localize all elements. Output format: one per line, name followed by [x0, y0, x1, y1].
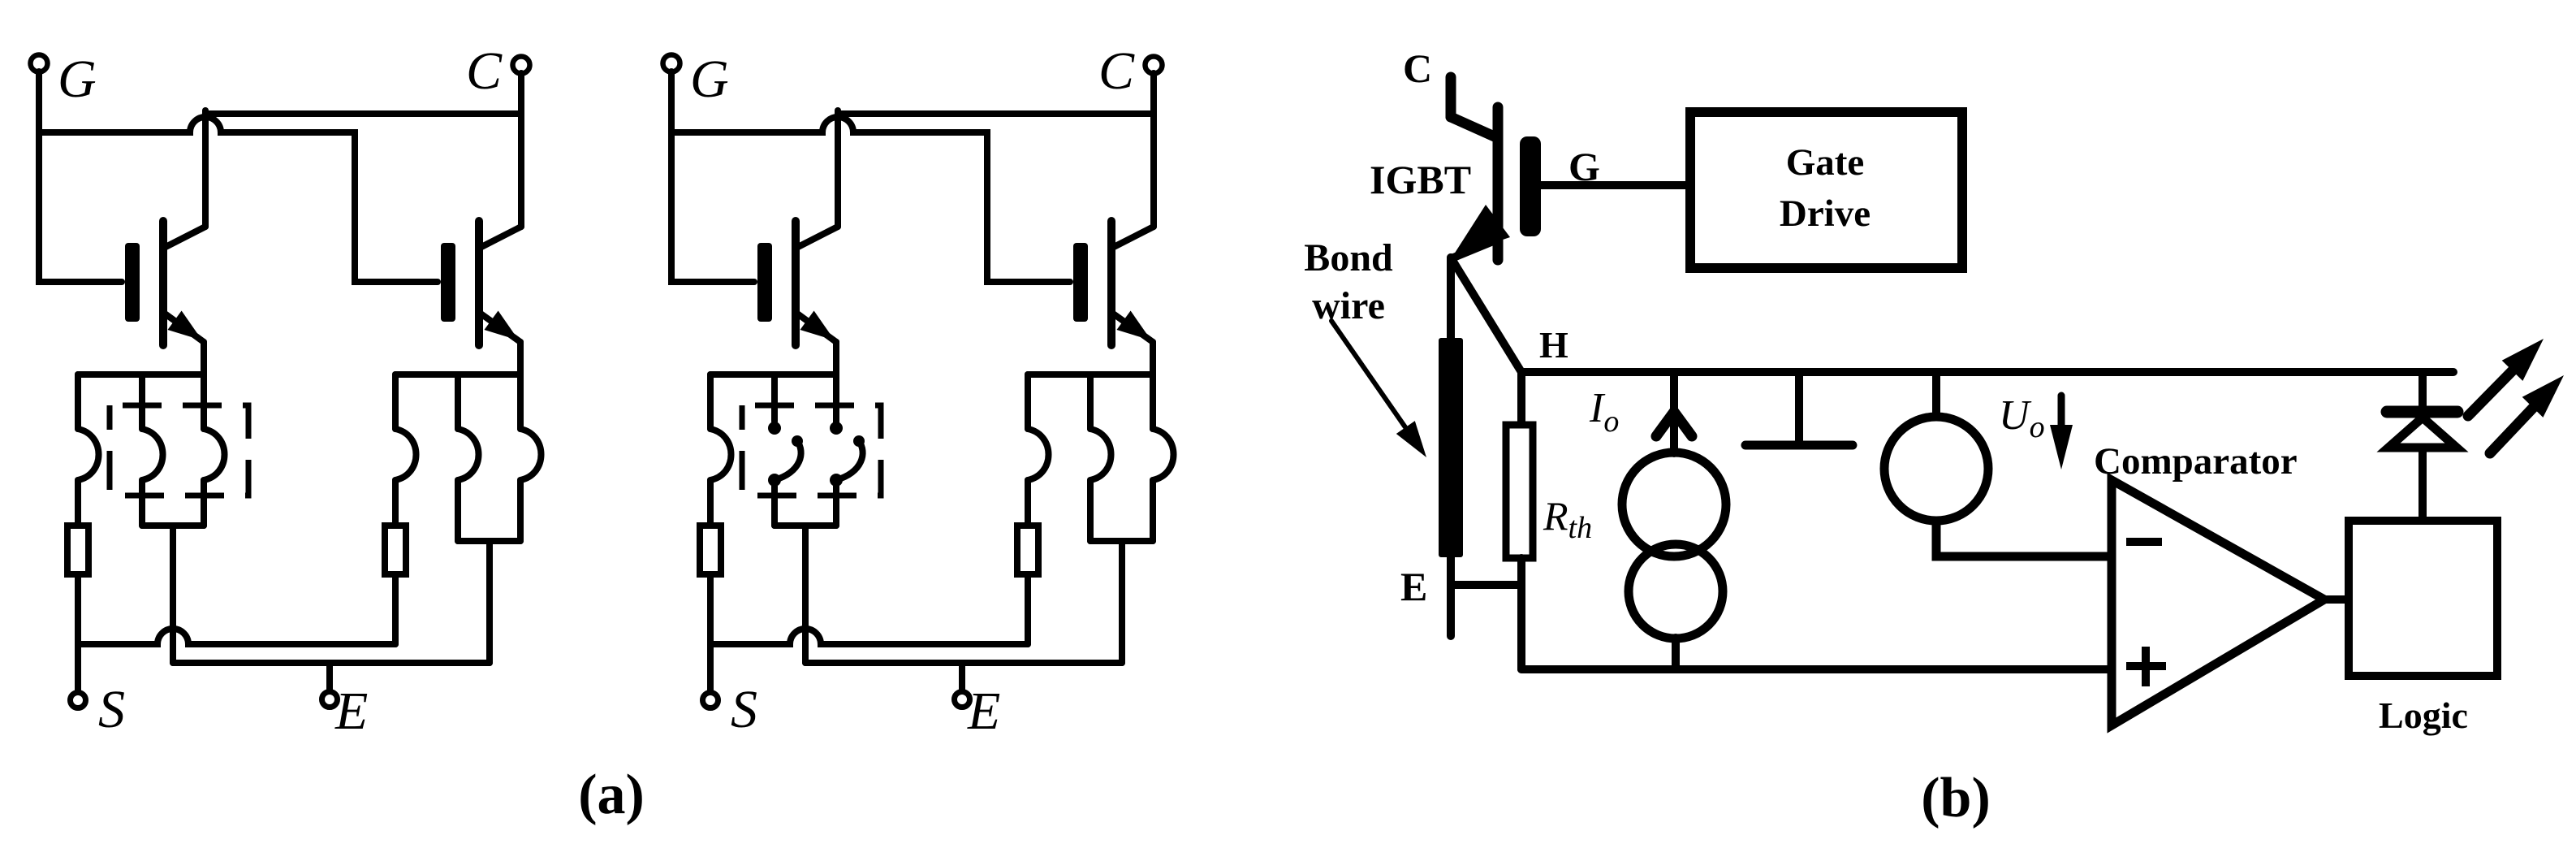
- svg-text:C: C: [466, 41, 503, 101]
- wire E terminal tap: [959, 663, 965, 690]
- wire S rail with hop: [78, 629, 395, 644]
- wire emitter diagonal to node H: [1451, 258, 1521, 372]
- svg-text:Comparator: Comparator: [2094, 440, 2298, 483]
- transistor IGBT chip 2 gate bar: [441, 243, 455, 322]
- inductor bond wire L2a: [1028, 429, 1049, 480]
- wire stub group 1 to bottom rail: [802, 526, 809, 663]
- wire U-join group 2: [1090, 538, 1153, 544]
- svg-text:Rth: Rth: [1543, 493, 1592, 545]
- inductor bond wire L2c: [1153, 429, 1174, 480]
- svg-text:E: E: [334, 682, 368, 741]
- comparator minus sign: [2126, 538, 2162, 546]
- voltage source Uo circle: [1884, 417, 1988, 521]
- wire below L1b: [771, 480, 778, 526]
- transistor IGBT U1 gate bar: [1520, 136, 1541, 236]
- wire C stem: [1150, 73, 1157, 227]
- wire collector stub U1: [1446, 77, 1456, 117]
- transistor IGBT chip 1 emitter stroke: [165, 314, 204, 342]
- inductor broken bond wire L1b arc: [775, 441, 801, 480]
- transistor IGBT chip 1 emitter arrow: [800, 311, 835, 341]
- inductor bond wire L1b: [142, 429, 163, 480]
- wire below L2c: [1150, 480, 1156, 541]
- wire drop L2a top: [392, 374, 399, 429]
- wire E bottom rail: [805, 660, 1122, 666]
- resistor Rth: [1506, 425, 1533, 558]
- wire emitter upper stub: [1447, 258, 1455, 341]
- wire drop L1b broken top: [771, 374, 778, 422]
- svg-text:G: G: [690, 50, 729, 109]
- wire to S terminal: [75, 574, 81, 690]
- wire emitter 2 drop: [517, 342, 524, 429]
- svg-text:(a): (a): [578, 764, 645, 826]
- wire Uo top stub: [1932, 372, 1940, 418]
- transistor IGBT U1 emitter arrow: [1452, 205, 1510, 257]
- svg-text:Logic: Logic: [2379, 695, 2468, 736]
- wire G horizontal with hop to gate 2: [39, 117, 438, 282]
- node S terminal left: [71, 693, 86, 708]
- wire Rth bottom to bottom rail: [1517, 558, 1525, 669]
- wire LED drop from H rail: [2419, 372, 2427, 407]
- svg-text:G: G: [1568, 144, 1600, 189]
- box logic: [2349, 521, 2497, 676]
- inductor bond wire L2b: [1090, 429, 1111, 480]
- svg-text:S: S: [98, 680, 125, 739]
- inductor bond wire L1a: [78, 429, 99, 480]
- dashed box bond wires: [110, 405, 248, 496]
- bond wire thick bar: [1439, 338, 1463, 557]
- resistor group 1 sense: [700, 526, 721, 574]
- wire G stem to gate 1: [671, 71, 754, 282]
- wire G stem to gate 1: [39, 71, 122, 282]
- LED cathode bar: [2387, 406, 2457, 418]
- transistor IGBT U1 emitter stroke: [1452, 240, 1497, 258]
- current source circle upper: [1622, 452, 1726, 556]
- wire G horizontal with hop to gate 2: [671, 117, 1070, 282]
- wire above resistor 2: [1025, 480, 1031, 526]
- wire drop L1a: [707, 374, 714, 429]
- transistor IGBT chip 1 body: [159, 221, 167, 345]
- transistor IGBT chip 1 collector stroke: [166, 227, 205, 247]
- svg-text:C: C: [1403, 45, 1432, 91]
- wire emitter 1 drop: [201, 342, 207, 429]
- wire above resistor 2: [392, 480, 399, 526]
- resistor group 2 sense: [1017, 526, 1038, 574]
- wire kelvin rail group 1: [710, 371, 836, 378]
- wire below L1c: [201, 480, 207, 526]
- transistor IGBT chip 1 emitter arrow: [168, 311, 203, 341]
- wire top rail C: [838, 110, 1154, 117]
- wire emitter lower stub: [1447, 557, 1455, 636]
- junction dot broken L1c arc end: [853, 435, 865, 447]
- wire U-join group 1: [775, 522, 836, 529]
- transistor IGBT chip 2 body: [1107, 221, 1115, 345]
- resistor group 1 sense: [67, 526, 88, 574]
- wire below L2c: [517, 480, 524, 541]
- svg-text:S: S: [731, 680, 757, 739]
- svg-text:H: H: [1539, 324, 1568, 366]
- node C terminal left: [513, 57, 530, 74]
- svg-text:E: E: [1400, 564, 1427, 609]
- wire current source top stub: [1670, 372, 1678, 453]
- svg-text:wire: wire: [1312, 284, 1385, 327]
- transistor IGBT chip 1 body: [792, 221, 800, 345]
- resistor group 2 sense: [385, 526, 406, 574]
- wire below L2b: [1087, 480, 1094, 541]
- wire C stem: [518, 73, 524, 227]
- transistor IGBT chip 2 collector stroke: [1114, 227, 1154, 247]
- inductor bond wire L2b: [458, 429, 479, 480]
- node S terminal right: [703, 693, 718, 708]
- transistor IGBT chip 2 emitter arrow: [485, 311, 520, 341]
- svg-text:(b): (b): [1921, 767, 1991, 829]
- wire drop L1a: [75, 374, 81, 429]
- comparator plus sign: [2126, 662, 2166, 670]
- wire resistor 2 drop: [392, 574, 399, 644]
- wire U-join group 2: [458, 538, 520, 544]
- svg-text:G: G: [58, 50, 97, 109]
- svg-text:Bond: Bond: [1304, 236, 1393, 279]
- svg-text:Io: Io: [1589, 385, 1619, 439]
- transistor IGBT chip 2 emitter stroke: [1113, 314, 1153, 342]
- wire drop L2b: [455, 374, 461, 429]
- transistor IGBT chip 2 emitter stroke: [481, 314, 520, 342]
- inductor bond wire L2c: [520, 429, 542, 480]
- transistor IGBT chip 2 body: [475, 221, 483, 345]
- junction dot broken L1b top: [768, 422, 781, 435]
- op-amp comparator triangle: [2112, 480, 2324, 725]
- wire current source bottom stub: [1672, 638, 1680, 669]
- wire top rail C: [205, 110, 521, 117]
- wire E bottom rail: [173, 660, 490, 666]
- wire below L1a: [75, 480, 81, 526]
- junction dot broken L1c bottom: [830, 474, 843, 487]
- node C terminal right: [1146, 57, 1163, 74]
- node H rail: [1521, 368, 2453, 376]
- wire emitter 1 drop: [833, 342, 839, 429]
- wire H drop to Rth: [1517, 372, 1525, 425]
- wire comparator output: [2324, 595, 2349, 604]
- wire E terminal tap: [326, 663, 333, 690]
- wire to S terminal: [707, 574, 714, 690]
- wire kelvin rail group 2: [395, 371, 520, 378]
- wire kelvin rail group 2: [1028, 371, 1153, 378]
- wire resistor 2 drop: [1025, 574, 1031, 644]
- svg-text:Gate: Gate: [1786, 141, 1865, 184]
- wire collector 1 vertical: [202, 110, 209, 227]
- junction dot broken L1b arc end: [792, 435, 803, 447]
- wire drop L2a top: [1025, 374, 1031, 429]
- wire below L1a: [707, 480, 714, 526]
- wire stub group 2 to bottom rail: [1119, 541, 1125, 663]
- current source arrow up: [1656, 412, 1692, 436]
- node E terminal left: [322, 692, 338, 708]
- node G terminal right: [663, 55, 680, 72]
- transistor IGBT U1 body: [1493, 107, 1504, 260]
- transistor IGBT chip 2 gate bar: [1073, 243, 1088, 322]
- svg-text:C: C: [1098, 41, 1135, 101]
- wire kelvin rail group 1: [78, 371, 204, 378]
- junction dot broken L1b bottom: [768, 474, 781, 487]
- inductor bond wire L1c on emitter drop: [204, 429, 225, 480]
- wire LED to logic box: [2419, 448, 2427, 521]
- thermal ground plate bar: [1745, 441, 1853, 450]
- wire Uo to comparator minus input: [1936, 521, 2111, 556]
- LED triangle: [2388, 418, 2457, 448]
- wire below L1b: [139, 480, 145, 526]
- node E terminal right: [955, 692, 970, 708]
- svg-text:Drive: Drive: [1780, 193, 1871, 235]
- wire emitter drop broken top: [833, 342, 839, 422]
- wire U-join group 1: [142, 522, 204, 529]
- inductor bond wire L2a: [395, 429, 416, 480]
- arrow Uo down: [2058, 396, 2065, 432]
- current source circle lower: [1629, 544, 1723, 638]
- svg-text:IGBT: IGBT: [1370, 157, 1471, 202]
- svg-text:Uo: Uo: [1999, 392, 2045, 444]
- transistor IGBT chip 1 gate bar: [757, 243, 772, 322]
- transistor IGBT chip 1 gate bar: [125, 243, 140, 322]
- wire bottom rail to comparator plus input: [1521, 665, 2112, 673]
- node G terminal left: [31, 55, 48, 72]
- transistor IGBT chip 2 emitter arrow: [1117, 311, 1152, 341]
- wire E to resistor bottom: [1451, 581, 1521, 589]
- transistor IGBT chip 1 emitter stroke: [797, 314, 836, 342]
- transistor IGBT chip 1 collector stroke: [798, 227, 838, 247]
- svg-text:E: E: [967, 682, 1000, 741]
- dashed box bond wires: [742, 405, 881, 496]
- wire gate to drive: [1541, 181, 1690, 189]
- thermal ground plate stem: [1795, 372, 1803, 443]
- transistor IGBT chip 2 collector stroke: [481, 227, 521, 247]
- inductor bond wire L1a: [710, 429, 731, 480]
- bond wire pointer arrow: [1331, 321, 1405, 427]
- wire stub group 1 to bottom rail: [170, 526, 176, 663]
- wire stub group 2 to bottom rail: [486, 541, 493, 663]
- wire below L2b: [455, 480, 461, 541]
- box gate drive: [1690, 112, 1962, 268]
- junction dot broken L1c top: [830, 422, 843, 435]
- LED emission arrow 2: [2490, 406, 2535, 453]
- wire drop L1b: [139, 374, 145, 429]
- wire drop L2b: [1087, 374, 1094, 429]
- wire S rail with hop: [710, 629, 1028, 644]
- inductor broken bond wire L1c arc: [836, 441, 863, 480]
- wire collector diagonal U1: [1451, 117, 1498, 138]
- wire emitter 2 drop: [1150, 342, 1156, 429]
- wire collector 1 vertical: [835, 110, 841, 227]
- wire below L1c: [833, 480, 839, 526]
- LED emission arrow 1: [2468, 369, 2514, 416]
